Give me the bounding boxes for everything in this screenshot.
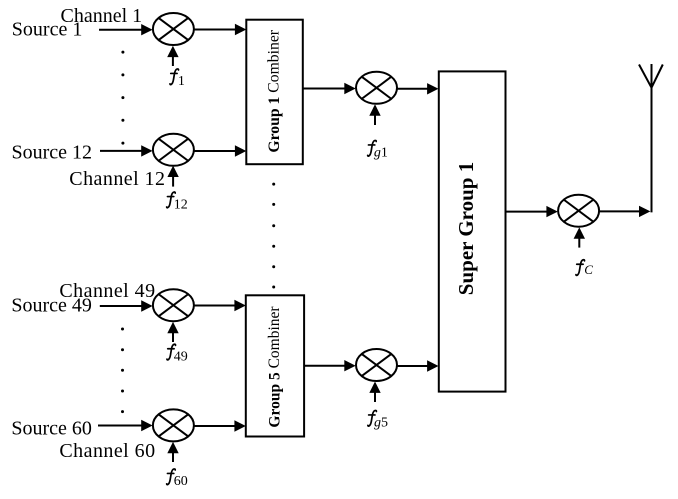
- svg-text:Source 49: Source 49: [11, 295, 92, 317]
- wire Source49 to mixer M49: [100, 305, 142, 307]
- wire Source1 to mixer M1: [99, 29, 143, 31]
- mixer M12: [153, 134, 194, 166]
- svg-text:C: C: [584, 262, 593, 277]
- label f1: [170, 69, 179, 85]
- svg-text:Source 1: Source 1: [12, 19, 83, 41]
- mixer Mg1: [356, 72, 397, 104]
- label fC: [576, 260, 585, 276]
- dots column top-left: [121, 51, 124, 145]
- carrier arrow f1 into M1: [172, 55, 174, 66]
- block Group 1 Combiner: [246, 20, 302, 165]
- svg-text:g5: g5: [374, 416, 388, 431]
- wire M1 to Group1: [194, 29, 236, 31]
- mixer MC: [558, 195, 599, 227]
- svg-text:g1: g1: [374, 146, 388, 161]
- carrier arrow f49 into M49: [172, 331, 174, 342]
- svg-text:60: 60: [174, 474, 188, 489]
- svg-text:Group 5 Combiner: Group 5 Combiner: [266, 306, 283, 428]
- svg-text:Super Group 1: Super Group 1: [454, 162, 478, 295]
- svg-text:1: 1: [178, 74, 185, 89]
- label f12: [167, 192, 176, 208]
- svg-text:Group 1 Combiner: Group 1 Combiner: [265, 29, 282, 152]
- svg-text:Channel 60: Channel 60: [59, 440, 155, 462]
- wire Group1 to mixer Mg1: [304, 88, 346, 90]
- antenna: [639, 64, 663, 212]
- mixer M1: [153, 13, 194, 45]
- wire Source60 to mixer M60: [98, 425, 142, 427]
- carrier arrow fC into MC: [578, 237, 580, 248]
- wire M49 to Group5: [194, 305, 236, 307]
- wire Source12 to mixer M12: [100, 150, 143, 152]
- carrier arrow fg1 into Mg1: [374, 114, 376, 125]
- svg-text:Source 60: Source 60: [11, 418, 92, 440]
- wire M60 to Group5: [194, 425, 236, 427]
- mixer M49: [153, 289, 194, 321]
- dots column middle: [272, 183, 275, 289]
- svg-text:Source 12: Source 12: [12, 142, 93, 164]
- svg-text:Channel 12: Channel 12: [69, 168, 165, 190]
- wire Mg5 to Super Group: [397, 365, 428, 367]
- label fg1: [368, 140, 377, 156]
- wire Mg1 to Super Group: [397, 88, 428, 90]
- carrier arrow f60 into M60: [172, 451, 174, 462]
- wire M12 to Group1: [194, 150, 236, 152]
- dots column bottom-left: [121, 328, 124, 414]
- svg-text:49: 49: [174, 350, 188, 365]
- svg-text:12: 12: [174, 198, 188, 213]
- block Group 5 Combiner: [246, 295, 304, 436]
- block Super Group 1: [439, 71, 506, 391]
- wire MC to antenna: [599, 210, 640, 212]
- label f49: [167, 344, 176, 360]
- label fg5: [368, 410, 377, 426]
- mixer Mg5: [356, 349, 397, 381]
- carrier arrow f12 into M12: [172, 176, 174, 187]
- wire Group5 to mixer Mg5: [304, 365, 345, 367]
- label f60: [167, 469, 176, 485]
- mixer M60: [153, 409, 194, 441]
- carrier arrow fg5 into Mg5: [374, 391, 376, 402]
- wire Super Group to mixer MC: [506, 211, 548, 213]
